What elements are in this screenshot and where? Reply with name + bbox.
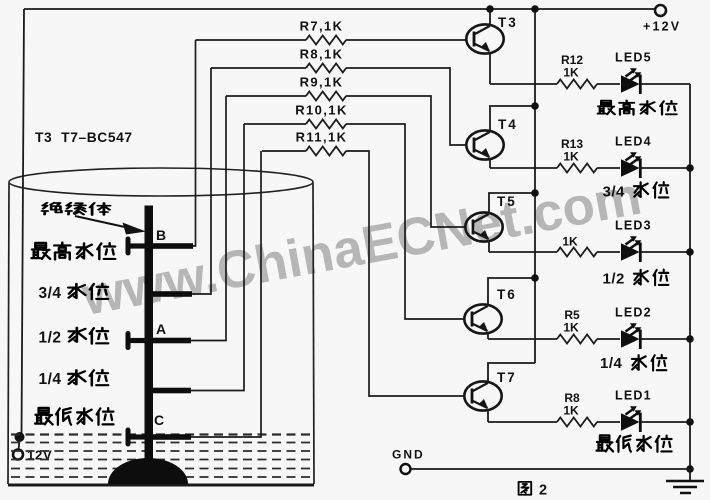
svg-text:1/4: 1/4 [39, 371, 62, 388]
node B label [156, 227, 166, 243]
3/4 level electrode [149, 291, 192, 297]
wire electrode to resistor row at x=261 [191, 151, 261, 437]
wire R10 to transistor base [346, 124, 465, 319]
probe base dome electrode [108, 458, 188, 484]
label LED3 [615, 219, 652, 233]
svg-text:T4: T4 [498, 117, 518, 132]
resistor R8 1K [306, 64, 346, 73]
junction right rail y=469 [686, 465, 694, 473]
label 3/4 level (left) [39, 284, 109, 302]
junction T3 collector to rail [486, 5, 494, 13]
svg-text:1K: 1K [563, 150, 579, 164]
svg-text:2: 2 [539, 483, 547, 499]
LED LED2 [621, 323, 641, 349]
wire emitter row to resistor (LED5 branch) [490, 83, 557, 85]
wire R9 left segment [226, 95, 306, 97]
transistor T4 BC547 NPN [466, 130, 503, 159]
label LED1 [615, 389, 652, 403]
label LED5 [615, 51, 652, 65]
label T6 [497, 287, 517, 302]
svg-text:T3 T7–BC547: T3 T7–BC547 [35, 130, 133, 145]
junction distribution rail to top rail [531, 5, 539, 13]
wire T6 emitter [487, 332, 489, 339]
wire top +12V rail [24, 8, 655, 10]
node C label [154, 412, 164, 428]
wire electrode to resistor row at x=195.5 [193, 40, 196, 246]
junction right rail y=168 [686, 164, 694, 172]
resistor R10 1K [306, 120, 346, 129]
1/2 level electrode A [126, 331, 192, 350]
svg-text:1K: 1K [562, 235, 578, 249]
wire resistor to LED4 [597, 167, 620, 169]
svg-text:LED4: LED4 [615, 135, 652, 149]
resistor R8 (LED1 series) [557, 418, 597, 427]
wire emitter row to resistor (LED2 branch) [488, 338, 557, 340]
svg-text:LED1: LED1 [615, 389, 652, 403]
label R8 1K [563, 391, 580, 418]
wire R11 left segment [262, 150, 306, 152]
wire LED3 cathode to right rail [641, 251, 690, 253]
1/4 level electrode [149, 388, 191, 394]
tank right wall [313, 183, 314, 484]
svg-text:R8,1K: R8,1K [300, 47, 344, 62]
svg-text:1K: 1K [563, 66, 579, 80]
svg-text:R7,1K: R7,1K [300, 19, 344, 34]
wire electrode to resistor row at x=226 [191, 96, 226, 341]
wire resistor to LED5 [597, 83, 620, 85]
label R5 1K [563, 308, 580, 335]
junction right rail y=339 [686, 335, 694, 343]
LED LED1 [621, 406, 641, 432]
resistor R11 1K [306, 147, 346, 156]
junction T5 collector [531, 189, 539, 197]
wire LED4 cathode to right rail [641, 167, 690, 169]
label R13 1K [561, 137, 583, 164]
highest level electrode B [126, 237, 194, 256]
wire resistor to LED3 [597, 251, 620, 253]
label highest water level (left) [32, 243, 116, 260]
wire T3 emitter [489, 52, 491, 84]
wire LED2 cathode to right rail [641, 338, 690, 340]
label T3 [498, 15, 518, 30]
wire resistor to LED1 [597, 421, 620, 423]
svg-text:1/2: 1/2 [603, 271, 625, 288]
wire LED5 cathode to right rail [641, 83, 690, 85]
wire emitter row to resistor (LED3 branch) [489, 251, 557, 253]
label figure 2 [519, 482, 547, 499]
resistor R7 1K [306, 36, 346, 45]
svg-text:3/4: 3/4 [39, 285, 62, 302]
svg-text:1K: 1K [563, 321, 579, 335]
transistor T7 BC547 NPN [464, 381, 501, 410]
svg-text:T5: T5 [497, 194, 517, 209]
resistor R9 1K [306, 92, 346, 101]
wire R8 left segment [211, 67, 306, 69]
tank bottom [8, 484, 314, 487]
wire GND to right rail [411, 468, 691, 470]
transistor T5 BC547 NPN [465, 212, 502, 241]
resistor R5 (LED2 series) [557, 335, 597, 344]
transistor T3 BC547 NPN [466, 24, 503, 53]
water surface dashed lines [11, 435, 312, 478]
junction T6 collector [531, 274, 539, 282]
label lowest water level (right) [597, 435, 672, 451]
wire emitter row to resistor (LED1 branch) [488, 421, 557, 423]
resistor R12 (LED5 series) [557, 80, 597, 89]
LED LED3 [621, 236, 641, 262]
label 3/4 level (right) [603, 182, 669, 200]
resistor R13 (LED4 series) [557, 164, 597, 173]
node A label [156, 321, 166, 337]
wire R7 to transistor base [346, 39, 467, 41]
label T7 [497, 370, 517, 385]
label LED4 [615, 135, 652, 149]
wire R7 left segment [196, 39, 307, 41]
terminal 12V bottom-left [13, 448, 53, 463]
wire emitter row to resistor (LED4 branch) [490, 167, 557, 169]
terminal GND [392, 448, 425, 475]
wire R8 to transistor base [346, 68, 467, 145]
terminal +12V [643, 5, 681, 34]
label R10,1K [295, 103, 347, 118]
ground symbol [666, 481, 704, 493]
label R11,1K [296, 130, 348, 145]
svg-text:A: A [156, 321, 166, 337]
label insulator (jue-yuan-ti) with arrow [42, 203, 146, 235]
wire left supply rail down to tank [22, 9, 25, 437]
junction T4 collector [531, 102, 539, 110]
wire electrode to resistor row at x=244 [191, 124, 244, 391]
wire right cathode rail [689, 84, 691, 481]
svg-text:R9,1K: R9,1K [300, 75, 344, 90]
junction right rail y=252 [686, 248, 694, 256]
label LED2 [615, 306, 652, 320]
label 1/2 level (left) [39, 328, 109, 347]
wire electrode to resistor row at x=211 [192, 68, 211, 294]
resistor 1K (LED3 series) [557, 248, 597, 257]
wire +12V vertical distribution rail [534, 9, 536, 363]
wire LED1 cathode to right rail [641, 421, 690, 423]
svg-text:3/4: 3/4 [603, 184, 626, 201]
wire T3 collector [489, 9, 491, 26]
label lowest water level (left) [35, 408, 114, 425]
svg-text:1/2: 1/2 [39, 329, 62, 346]
wire R9 to transistor base [346, 96, 466, 227]
svg-text:T6: T6 [497, 287, 517, 302]
label highest water level (right) [598, 100, 677, 114]
wire T4 collector [490, 106, 535, 132]
label 1/4 level (left) [39, 370, 109, 388]
LED LED4 [621, 152, 641, 178]
wire T6 collector [488, 278, 535, 306]
svg-text:1/4: 1/4 [600, 355, 623, 372]
sensor probe shaft (insulated rod) [145, 206, 154, 466]
junction right rail y=422 [686, 418, 694, 426]
label T5 [497, 194, 517, 209]
svg-text:LED2: LED2 [615, 306, 652, 320]
svg-text:R11,1K: R11,1K [296, 130, 348, 145]
watermark www.ChinaECNet.com [79, 170, 646, 324]
junction dot water contact [15, 432, 25, 450]
wire T5 collector [489, 193, 535, 214]
water tank rim ellipse [9, 168, 313, 196]
svg-text:LED3: LED3 [615, 219, 652, 233]
label R8,1K [300, 47, 344, 62]
svg-text:T3: T3 [498, 15, 518, 30]
label 1/2 level (right) [603, 270, 669, 288]
svg-text:R10,1K: R10,1K [295, 103, 347, 118]
wire resistor to LED2 [597, 338, 620, 340]
label R9,1K [300, 75, 344, 90]
tank left wall [8, 183, 9, 484]
svg-text:1K: 1K [563, 404, 579, 418]
svg-text:B: B [156, 227, 166, 243]
svg-text:GND: GND [392, 448, 425, 462]
wire T7 collector [488, 363, 535, 383]
label T4 [498, 117, 518, 132]
wire T5 emitter [488, 240, 490, 252]
label 1K [562, 235, 578, 249]
svg-text:+12V: +12V [643, 20, 681, 34]
svg-text:T7: T7 [497, 370, 517, 385]
transistor T6 BC547 NPN [464, 304, 501, 333]
wire T4 emitter [489, 158, 491, 168]
svg-text:LED5: LED5 [615, 51, 652, 65]
label T3 T7-BC547 [35, 130, 133, 145]
label R12 1K [561, 53, 583, 80]
label R7,1K [300, 19, 344, 34]
wire R11 to transistor base [346, 151, 465, 396]
wire T7 emitter [487, 409, 489, 422]
wire R10 left segment [244, 123, 306, 125]
label 1/4 level (right) [600, 355, 666, 372]
lowest level electrode C [126, 428, 192, 447]
svg-text:C: C [154, 412, 164, 428]
LED LED5 [621, 68, 641, 94]
